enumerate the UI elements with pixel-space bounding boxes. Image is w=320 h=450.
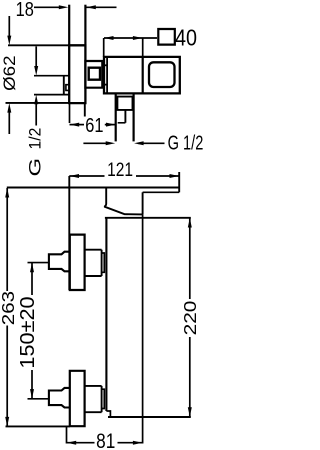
- 18 extension right: [84, 5, 86, 45]
- body outline: [104, 57, 180, 94]
- svg-text:61: 61: [85, 113, 103, 136]
- inlet center ext: [28, 262, 49, 264]
- dia62 lower arrow: [8, 112, 10, 135]
- G12 right dim right arrow: [134, 141, 144, 145]
- spout bottom / 220 top ext: [105, 217, 191, 219]
- dim220 line lower: [189, 337, 191, 417]
- flange rectangle: [69, 45, 85, 103]
- body division: [142, 57, 144, 94]
- dim text 121: [107, 159, 133, 181]
- G12 left upper arrow: [35, 46, 37, 67]
- dim text G12 left rotated part 1/2: [26, 128, 44, 150]
- spacer right edge: [101, 250, 103, 276]
- dim40 ext right: [142, 38, 144, 57]
- body left edge link bottom: [104, 84, 107, 86]
- inlet center ext: [28, 398, 49, 400]
- dim text 18: [16, 0, 34, 20]
- svg-text:263: 263: [0, 291, 18, 325]
- dim 18 line right: [86, 6, 116, 8]
- dim121 right ext / bar right edge: [178, 172, 180, 192]
- inlet disc: [70, 235, 85, 290]
- wall line: [105, 218, 107, 411]
- handle outline: [105, 188, 143, 215]
- 18 extension left: [68, 5, 70, 45]
- dim text dia62 rotated: [0, 55, 19, 90]
- dim81 line left: [67, 442, 95, 444]
- bottom ext line 263/disc: [6, 425, 70, 427]
- spacer right edge: [101, 386, 103, 412]
- G12 left lower arrow: [35, 103, 37, 125]
- dia62 bottom extension: [6, 102, 70, 104]
- dim61 line right: [105, 124, 116, 126]
- G12 right dim left arrow: [83, 142, 107, 144]
- washer: [102, 389, 105, 408]
- handle boss rounded: [149, 62, 175, 87]
- inlet disc: [70, 371, 85, 426]
- dim150 line upper: [31, 263, 33, 295]
- stub inner tick: [118, 122, 126, 124]
- knob outer: [85, 61, 102, 88]
- hub top extension: [34, 75, 69, 77]
- dim text 81: [96, 430, 115, 450]
- dim40 ext left: [103, 38, 105, 57]
- dim263 line upper: [6, 188, 8, 291]
- bottom extension line: [108, 416, 191, 418]
- dim121 line left: [69, 175, 104, 177]
- svg-text:18: 18: [16, 0, 34, 20]
- dia62 top extension: [8, 44, 69, 46]
- svg-text:81: 81: [96, 430, 115, 450]
- wall bottom step: [106, 411, 110, 417]
- dim text 263 rotated: [0, 291, 18, 325]
- dim263 line lower: [6, 326, 8, 427]
- dim220 line upper: [189, 218, 191, 299]
- dim 18 line left: [34, 6, 60, 8]
- dia62 upper arrow: [8, 16, 10, 37]
- stub left side: [115, 93, 117, 141]
- union nut: [49, 388, 70, 408]
- dim text G12 left rotated part G: [26, 158, 44, 177]
- dim text 150pm20 rotated: [17, 296, 39, 368]
- svg-text:40: 40: [175, 25, 197, 51]
- stub inner box: [117, 97, 132, 110]
- dim81 line right: [118, 442, 143, 444]
- handle right edge: [142, 192, 144, 214]
- bar top edge with 263 ext: [7, 187, 179, 189]
- svg-text:121: 121: [107, 159, 133, 181]
- dim text G12 right: [168, 131, 204, 154]
- hub inner step: [66, 85, 69, 91]
- dim81 ext left: [66, 427, 68, 444]
- spacer bottom: [85, 411, 102, 413]
- square symbol: [158, 29, 175, 45]
- body left edge link top: [104, 64, 107, 66]
- washer: [102, 253, 105, 272]
- body left inner edge: [106, 57, 108, 94]
- dim text 220 rotated: [181, 300, 201, 335]
- stub right side: [133, 93, 135, 141]
- svg-text:G: G: [26, 158, 44, 177]
- dim40 left arrow: [104, 36, 114, 40]
- dim81 ext right: [142, 214, 144, 443]
- flange lower-right stub: [84, 103, 86, 116]
- dim40 right arrow: [133, 36, 143, 40]
- spacer top: [85, 385, 102, 387]
- spacer bottom: [85, 275, 102, 277]
- hub bottom extension: [34, 94, 69, 96]
- hub left edge: [63, 76, 65, 95]
- bar lower plate line: [143, 191, 180, 193]
- dim150 line lower: [31, 370, 33, 399]
- dim text 61: [85, 113, 103, 136]
- knob inner: [89, 68, 100, 80]
- svg-text:150±20: 150±20: [17, 296, 39, 368]
- dim121 line right: [136, 175, 179, 177]
- union nut: [49, 252, 70, 272]
- stub inner pipe: [124, 110, 126, 123]
- dim40 line: [104, 37, 157, 39]
- dim61 line left: [70, 124, 85, 126]
- spacer top: [85, 249, 102, 251]
- svg-text:Ø62: Ø62: [0, 55, 19, 90]
- dim61 ext left: [69, 103, 71, 123]
- body left edge: [68, 176, 70, 290]
- svg-text:G 1/2: G 1/2: [168, 131, 204, 154]
- svg-text:220: 220: [181, 300, 201, 335]
- svg-text:1/2: 1/2: [26, 128, 44, 150]
- dim text 40: [175, 25, 197, 51]
